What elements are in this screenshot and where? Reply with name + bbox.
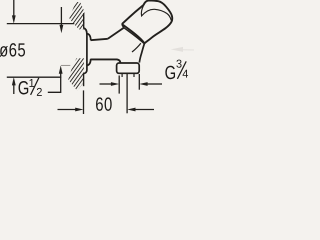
60 arrowhead left + right segment — [127, 108, 135, 112]
wall face line lower — [83, 73, 85, 86]
label 60 — [96, 97, 112, 110]
neck right edge down to outlet — [139, 43, 144, 62]
outlet pipe left stub — [121, 73, 123, 77]
label o65 — [0, 43, 25, 57]
dim line o65 bottom segment — [13, 84, 15, 94]
wall hatch lower patch — [68, 58, 84, 91]
G3/4 arrowhead left + right segment — [139, 82, 147, 86]
faint gray arrow to handle — [171, 47, 194, 52]
connector top edge — [87, 33, 89, 35]
valve body bottom edge — [91, 59, 121, 63]
G3/4 ext line right — [138, 74, 140, 90]
knob base edge — [122, 24, 145, 43]
cap inner edge line — [141, 6, 171, 21]
connector top leader line — [60, 7, 62, 27]
dim line o65 top segment — [13, 0, 15, 17]
handle knob outline — [122, 0, 172, 43]
wall face line upper — [83, 13, 85, 28]
arrowhead up G1/2 leader — [59, 65, 63, 73]
60 dim: left segment + arrowhead right — [58, 109, 78, 111]
neck-body fillet intersection curve — [132, 43, 141, 52]
valve body top edge — [91, 39, 108, 40]
G3/4 ext line left — [118, 76, 120, 94]
ext line o65 top — [7, 23, 75, 25]
arrowhead down connector top — [60, 25, 64, 33]
bonnet left mini edge — [122, 24, 124, 28]
arrowhead up o65 bottom — [12, 77, 16, 85]
label G3/4 — [165, 60, 188, 80]
bonnet top rim — [124, 28, 145, 44]
flange (escutcheon) profile — [83, 28, 87, 74]
60 ext line left — [83, 90, 85, 114]
G3/4 dim: left segment + arrowhead right — [100, 83, 113, 85]
outlet pipe right stub — [133, 73, 135, 77]
wall connector piece — [87, 34, 91, 66]
60 ext line right — [126, 73, 128, 114]
shoulder diagonal to handle neck — [108, 28, 124, 39]
faint ext line at connector bottom — [61, 64, 70, 66]
outlet hex nut — [117, 63, 140, 73]
G1/2 leader vertical + elbow — [48, 72, 61, 92]
wall hatch upper patch — [69, 2, 84, 29]
ext line o65 bottom — [7, 76, 61, 78]
label G1/2 — [19, 78, 42, 96]
arrowhead down o65 top — [12, 15, 16, 23]
connector bottom edge — [87, 64, 89, 66]
